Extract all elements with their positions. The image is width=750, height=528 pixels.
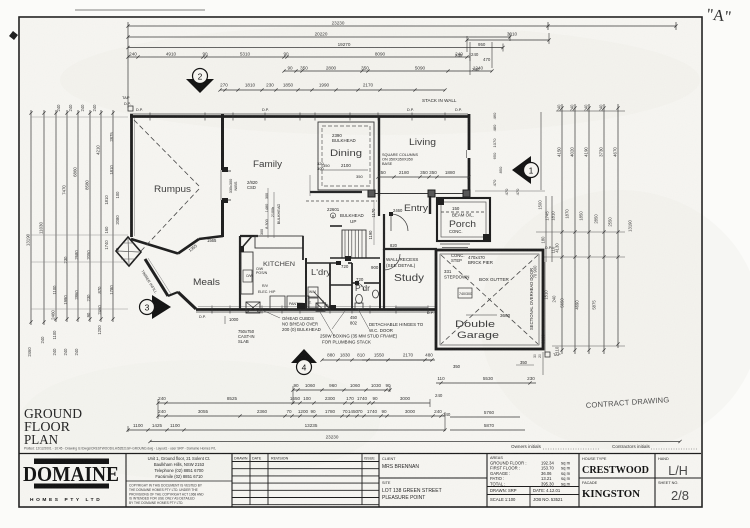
- pantry/fridge walls: [302, 236, 304, 260]
- hall walls around ldry: [305, 258, 307, 309]
- timber infill angled wall: [145, 259, 168, 296]
- dimension 3010 top right: [467, 39, 549, 41]
- door jamb nibs: [389, 212, 393, 216]
- DOMAINE logo: [23, 459, 119, 504]
- exterior wall left (Rumpus): [130, 114, 133, 237]
- right block horizontal tie lines: [536, 231, 625, 233]
- bulkhead 22601 dashed: [306, 200, 377, 202]
- ldry fittings: [308, 287, 318, 297]
- small dims near marker 4: 880 1830 810: [322, 359, 432, 361]
- right dimension block vertical lines: [561, 104, 563, 354]
- wall under dining (family/entry): [310, 191, 362, 193]
- dining/living divider wall: [378, 116, 380, 196]
- entry east wall: [429, 196, 431, 214]
- study window bottom: [395, 307, 428, 309]
- dimension row 20220: [128, 36, 510, 38]
- marker 3 (circle + right triangle): [140, 295, 172, 319]
- study door arc: [384, 254, 400, 270]
- living south colonnade line: [368, 193, 470, 195]
- dimension row 270 1810 230 1850 1990 2170: [220, 89, 445, 91]
- marker 2 (circle + down triangle): [186, 69, 214, 94]
- kitchen/stair core walls: [239, 236, 241, 309]
- dimension row 90 350 2800 350 5090 1240: [284, 70, 492, 72]
- porch entry steps: [440, 243, 470, 245]
- exterior wall bottom (Meals-Kitchen-Ldry-Study): [196, 308, 437, 311]
- kitchen island bench: [255, 236, 303, 248]
- double garage walls: [436, 250, 543, 349]
- laundry door diagonal: [318, 296, 330, 309]
- bottom row end connectors: [157, 399, 159, 419]
- dimension row 240 4910 90 5310 90 8090 240: [128, 56, 470, 58]
- marker 1 (left triangle + circle): [512, 156, 539, 184]
- right block inner short lines: [540, 112, 542, 190]
- garage lower dims 110 5530 230: [436, 382, 536, 384]
- meals angled wall to bottom: [168, 292, 178, 296]
- hall dim lines 1170 1190: [373, 200, 375, 245]
- living dims 350 2180 350 350 1880: [378, 176, 469, 178]
- dining small dim group 320 300 350: [309, 175, 311, 196]
- bottom dim row E 23230: [150, 441, 680, 443]
- left block horizontal ticks: [31, 116, 128, 118]
- porch pier: [483, 234, 491, 242]
- revision table: [232, 461, 379, 463]
- note leader lines: [262, 310, 280, 318]
- entry west wall: [378, 196, 380, 216]
- garage bottom dims 1550 2170 480: [362, 359, 435, 361]
- study left wall: [383, 249, 385, 309]
- dining bulkhead dashed box: [318, 122, 374, 190]
- right block crossing ticks: [560, 230, 563, 233]
- entry door arc: [391, 214, 408, 231]
- wc/pdr walls: [329, 263, 331, 309]
- porch walls: [437, 198, 490, 241]
- rumpus south wall: [131, 239, 178, 254]
- meals bay diagonal wall: [178, 239, 199, 254]
- entry/study walls: [383, 214, 385, 250]
- bottom dim row D 1100 1425 1100 13235: [128, 429, 445, 431]
- bottom dim row C 240 3055 2360 ... 3000 240: [158, 415, 445, 417]
- exterior wall top (Rumpus-Family-Dining-Living): [130, 115, 468, 118]
- dimension row 19270: [128, 47, 503, 49]
- rumpus east wall with opening: [221, 114, 224, 170]
- living east wall: [468, 114, 471, 150]
- top wall window ticks: [149, 113, 151, 121]
- bottom dim row B 240 8525 ... 3000: [158, 402, 430, 404]
- bulkhead marker below kitchen: [246, 302, 260, 313]
- left dimension block vertical lines: [30, 110, 32, 325]
- title block vertical dividers: [125, 454, 127, 508]
- svg-text:"A": "A": [706, 6, 733, 26]
- kitchen bench: [241, 252, 253, 294]
- scan artifact line top: [75, 9, 205, 11]
- porch beam dashed: [441, 211, 486, 213]
- marker 4 (up triangle + circle): [291, 349, 317, 375]
- top dim connectors: [127, 22, 129, 108]
- stair void walls: [330, 225, 342, 227]
- corner bay diamond (cast-in slab corner): [116, 237, 141, 266]
- dimension row 23230: [128, 25, 676, 27]
- stairs: [342, 230, 366, 258]
- rumpus dashed ceiling diagonals: [134, 120, 199, 186]
- scan artifact blob left: [9, 31, 18, 40]
- garage diagonals dashed: [441, 255, 538, 344]
- pdr fittings: wc + basin: [356, 294, 363, 303]
- title block outline: [19, 453, 701, 455]
- bottom dim row A 90 1060 960 1060 1030 90: [293, 389, 390, 391]
- bottom wall window ticks: [211, 306, 213, 314]
- garage nib 740/300: [458, 288, 472, 298]
